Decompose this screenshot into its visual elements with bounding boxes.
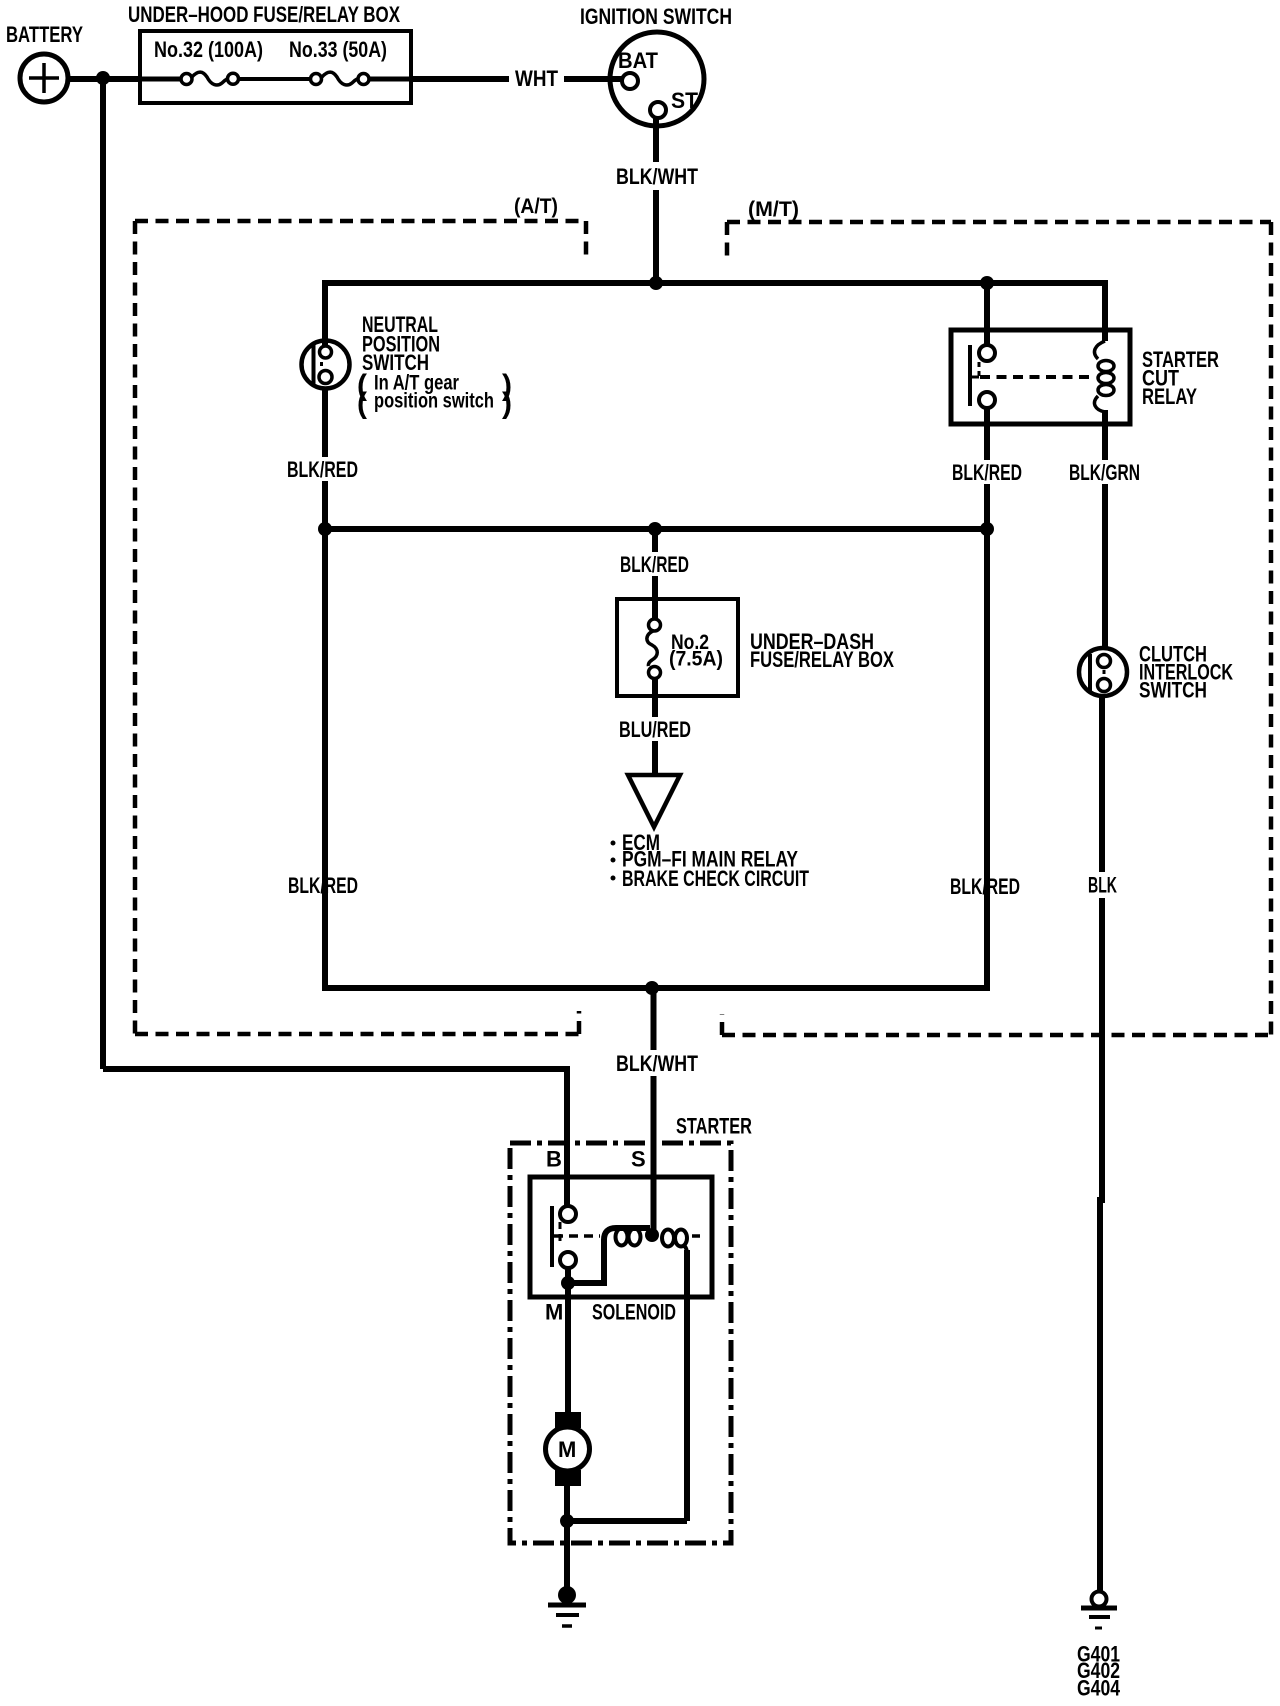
svg-text:BLK/WHT: BLK/WHT: [616, 164, 698, 189]
node relay junction: [980, 276, 994, 290]
wire fuse to arrow BLU/RED: [652, 678, 658, 775]
node mid right: [980, 522, 994, 536]
wire ST down BLK/WHT: [653, 118, 659, 283]
svg-text:RELAY: RELAY: [1142, 384, 1197, 409]
wire S drop BLK/WHT: [651, 988, 657, 1232]
starter dashed box: [510, 1143, 731, 1543]
label starter cut relay: [1142, 347, 1219, 409]
svg-text:BLK/GRN: BLK/GRN: [1069, 460, 1140, 485]
solenoid box: [530, 1177, 712, 1297]
svg-text:STARTER: STARTER: [676, 1114, 752, 1139]
wire relay switch drop: [984, 283, 990, 347]
wire battery feeder down: [100, 79, 106, 1069]
wire M drop: [565, 1268, 571, 1412]
svg-text:(: (: [357, 387, 367, 420]
wire label BLK/RED left lower: [283, 871, 364, 897]
svg-text:BRAKE CHECK CIRCUIT: BRAKE CHECK CIRCUIT: [622, 866, 809, 891]
arrow to ECM: [628, 775, 680, 827]
svg-text:BLK/RED: BLK/RED: [620, 552, 689, 577]
svg-text:WHT: WHT: [515, 66, 558, 91]
ignition switch: [580, 4, 732, 126]
label under-dash fuse/relay box: [750, 629, 894, 672]
wire motor loop bottom: [567, 1518, 687, 1524]
wire WHT to ignition switch: [410, 76, 622, 82]
label clutch interlock switch: [1139, 642, 1233, 703]
under-hood fuse/relay box: [128, 2, 411, 103]
label neutral position switch: [357, 312, 512, 420]
fuse No.32 (100A): [142, 37, 263, 85]
node bottom center: [645, 981, 659, 995]
node ST junction: [649, 276, 663, 290]
motor M1: [546, 1412, 590, 1486]
wire motor to ground: [564, 1486, 570, 1591]
node mid center: [648, 522, 662, 536]
svg-text:M: M: [558, 1437, 576, 1462]
node S coil junction: [645, 1228, 659, 1242]
battery: [6, 22, 83, 102]
wire mid drop BLK/RED: [652, 529, 658, 620]
ground starter: [548, 1586, 586, 1626]
node mid left: [318, 522, 332, 536]
svg-text:(7.5A): (7.5A): [669, 648, 723, 671]
svg-text:B: B: [546, 1147, 562, 1172]
clutch interlock switch: [1079, 648, 1127, 696]
svg-text:BLK/RED: BLK/RED: [287, 457, 358, 482]
M/T dashed box: [722, 222, 1271, 1035]
svg-text:(M/T): (M/T): [748, 198, 799, 221]
node battery junction: [96, 71, 110, 85]
label ECM list: [611, 830, 810, 891]
node M junction: [561, 1276, 575, 1290]
svg-text:): ): [502, 387, 512, 420]
pin ST: [650, 88, 699, 118]
svg-text:M: M: [545, 1300, 563, 1325]
wire bottom bus: [325, 529, 987, 988]
svg-text:IGNITION SWITCH: IGNITION SWITCH: [580, 4, 732, 29]
fuse No.33 (50A): [239, 37, 410, 85]
svg-text:FUSE/RELAY BOX: FUSE/RELAY BOX: [750, 647, 894, 672]
svg-text:SWITCH: SWITCH: [1139, 678, 1207, 703]
wire relay coil down BLK/GRN: [1102, 424, 1108, 649]
wire NPS down BLK/RED: [322, 388, 328, 529]
wire label BLK/RED right lower: [945, 873, 1026, 899]
wire battery to fuse box: [68, 76, 141, 82]
label fuse No.2: [669, 631, 723, 671]
wire top bus: [325, 283, 1105, 347]
svg-text:No.33 (50A): No.33 (50A): [289, 37, 387, 62]
svg-text:ST: ST: [671, 88, 699, 113]
starter cut relay: [951, 330, 1130, 424]
wire mid bus: [325, 526, 987, 532]
svg-text:BLK: BLK: [1088, 873, 1117, 898]
node motor ground junction: [560, 1514, 574, 1528]
ground G401: [1081, 1592, 1117, 1629]
svg-text:UNDER–HOOD FUSE/RELAY BOX: UNDER–HOOD FUSE/RELAY BOX: [128, 2, 400, 27]
solenoid coil: [568, 1228, 687, 1521]
svg-text:S: S: [631, 1147, 646, 1172]
wire battery to starter B: [103, 1069, 567, 1206]
svg-text:position switch: position switch: [374, 390, 494, 413]
under-dash fuse/relay box: [617, 599, 738, 696]
svg-text:BLK/WHT: BLK/WHT: [616, 1051, 698, 1076]
svg-text:BAT: BAT: [618, 48, 659, 73]
label G401 G402 G404: [1077, 1642, 1121, 1701]
svg-text:(A/T): (A/T): [514, 195, 558, 218]
svg-text:BLU/RED: BLU/RED: [619, 717, 691, 742]
svg-text:BATTERY: BATTERY: [6, 22, 83, 47]
wire clutch to ground BLK: [1100, 696, 1102, 1591]
svg-text:G404: G404: [1077, 1676, 1121, 1701]
svg-text:No.32 (100A): No.32 (100A): [154, 37, 263, 62]
wire relay to bus BLK/RED right: [984, 408, 990, 988]
pin BAT: [618, 48, 659, 89]
neutral position switch: [302, 341, 350, 389]
svg-text:BLK/RED: BLK/RED: [952, 460, 1022, 485]
svg-text:SOLENOID: SOLENOID: [592, 1300, 676, 1325]
solenoid contact: [552, 1206, 703, 1268]
A/T dashed box: [135, 221, 586, 1034]
